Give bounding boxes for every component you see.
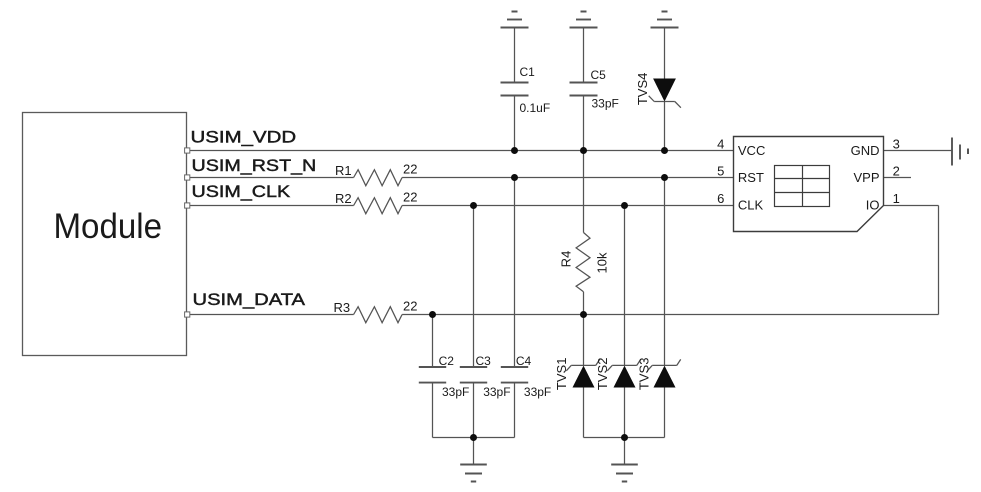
svg-text:R2: R2 — [335, 191, 352, 206]
svg-text:22: 22 — [403, 190, 417, 205]
svg-text:R4: R4 — [559, 251, 574, 268]
svg-text:33pF: 33pF — [442, 385, 469, 399]
svg-text:GND: GND — [851, 143, 880, 158]
svg-text:R1: R1 — [335, 163, 352, 178]
svg-text:22: 22 — [403, 162, 417, 177]
svg-text:22: 22 — [403, 299, 417, 314]
svg-text:R3: R3 — [334, 300, 351, 315]
svg-text:10k: 10k — [595, 252, 610, 273]
svg-text:5: 5 — [717, 164, 724, 179]
svg-text:C1: C1 — [520, 65, 536, 79]
svg-text:3: 3 — [893, 137, 900, 152]
svg-text:C4: C4 — [516, 354, 532, 368]
svg-text:0.1uF: 0.1uF — [520, 101, 551, 115]
svg-text:USIM_CLK: USIM_CLK — [192, 183, 291, 201]
svg-text:RST: RST — [738, 170, 764, 185]
svg-text:USIM_VDD: USIM_VDD — [191, 129, 297, 147]
svg-text:33pF: 33pF — [483, 385, 510, 399]
svg-text:C2: C2 — [439, 354, 455, 368]
svg-text:USIM_DATA: USIM_DATA — [193, 291, 306, 309]
svg-text:1: 1 — [893, 191, 900, 206]
svg-text:33pF: 33pF — [524, 385, 551, 399]
svg-text:TVS1: TVS1 — [554, 358, 569, 391]
svg-text:Module: Module — [54, 207, 163, 246]
svg-text:VPP: VPP — [853, 170, 879, 185]
svg-text:4: 4 — [717, 137, 724, 152]
svg-text:IO: IO — [866, 198, 880, 213]
svg-text:33pF: 33pF — [592, 97, 619, 111]
svg-text:VCC: VCC — [738, 143, 765, 158]
svg-text:C5: C5 — [591, 68, 607, 82]
svg-text:TVS2: TVS2 — [595, 358, 610, 391]
svg-text:C3: C3 — [476, 354, 492, 368]
svg-text:TVS3: TVS3 — [636, 358, 651, 391]
svg-text:USIM_RST_N: USIM_RST_N — [192, 157, 317, 175]
svg-text:2: 2 — [893, 164, 900, 179]
svg-text:TVS4: TVS4 — [635, 73, 650, 106]
svg-text:CLK: CLK — [738, 198, 764, 213]
svg-text:6: 6 — [717, 191, 724, 206]
